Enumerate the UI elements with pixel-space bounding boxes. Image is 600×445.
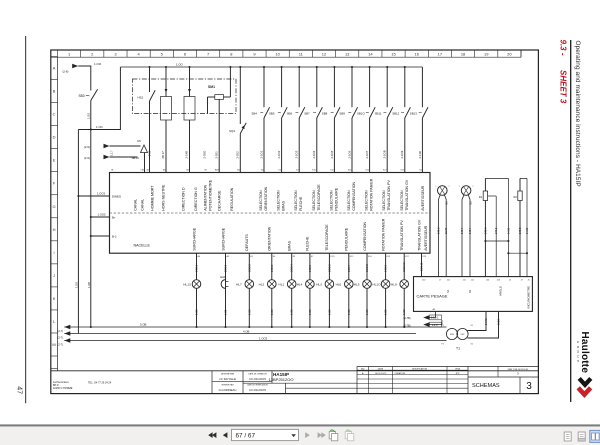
svg-text:(2-9): (2-9): [84, 145, 90, 149]
svg-text:24O.1: 24O.1: [195, 264, 199, 272]
wire 2OO.12 to carte pesage: [421, 253, 424, 276]
svg-text:AVERTISSEUR: AVERTISSEUR: [424, 225, 428, 250]
svg-text:2-1O3: 2-1O3: [295, 150, 299, 158]
control box NACELLE U-commands: [110, 173, 431, 254]
wire label 2-1O4: [312, 150, 316, 158]
box label AVERTISSEUR bottom: [424, 225, 428, 250]
svg-text:SELECTION: SELECTION: [329, 190, 333, 211]
svg-text:2-1O6: 2-1O6: [347, 150, 351, 158]
button first page: [208, 432, 216, 438]
lamp HL3: [316, 253, 334, 328]
svg-text:2OO.2: 2OO.2: [225, 264, 228, 272]
wire 1.OO5 B+: [91, 213, 110, 217]
svg-text:TRANSLATION PV: TRANSLATION PV: [400, 220, 404, 251]
svg-text:SB14: SB14: [132, 156, 139, 160]
svg-text:2-551: 2-551: [214, 151, 218, 159]
svg-text:1.OO: 1.OO: [87, 113, 91, 119]
pin numbers box bottom: [198, 255, 427, 258]
wire B-: [91, 235, 110, 237]
svg-text:2-1O.1: 2-1O.1: [431, 317, 439, 320]
svg-text:FLECHE: FLECHE: [299, 196, 303, 211]
svg-text:18: 18: [461, 51, 466, 56]
svg-text:TELESCOPAGE: TELESCOPAGE: [317, 184, 321, 211]
wire bus 5.OB: [64, 323, 446, 327]
svg-text:24.2B: 24.2B: [526, 227, 529, 234]
svg-text:O.OB: O.OB: [498, 319, 501, 325]
lamp HL13: [183, 253, 201, 328]
contact SM1-1: [161, 66, 172, 173]
svg-text:12: 12: [322, 51, 327, 56]
svg-text:DINEG: DINEG: [112, 194, 122, 198]
wire label 2-1OB: [383, 150, 387, 158]
svg-text:SQ4: SQ4: [229, 129, 235, 133]
svg-text:MODIFICATION: MODIFICATION: [412, 368, 427, 371]
svg-text:ORIENTATION: ORIENTATION: [264, 186, 268, 210]
switch SB12: [392, 66, 410, 173]
svg-text:DATE DE VERIFICATION: DATE DE VERIFICATION: [247, 383, 268, 386]
svg-text:E1: E1: [445, 201, 449, 205]
switch HS1: [138, 66, 156, 173]
box label SELECTION BRAS: [277, 190, 286, 211]
svg-text:1.O6: 1.O6: [384, 309, 388, 315]
svg-text:D: D: [53, 135, 56, 140]
svg-text:PENDULAIRE: PENDULAIRE: [334, 187, 338, 211]
wire R1 bridge: [485, 178, 508, 276]
svg-text:1.O6: 1.O6: [270, 309, 274, 315]
wire label 24B.4: [469, 227, 472, 234]
wire label 24B.B: [519, 227, 522, 234]
box label HOMME MORT: [150, 185, 154, 211]
box label CANAL: [140, 199, 144, 211]
svg-text:J.F FAYOLLE: J.F FAYOLLE: [219, 377, 236, 381]
svg-text:SCHEMAS: SCHEMAS: [472, 383, 500, 389]
svg-text:13BP2512OO: 13BP2512OO: [269, 377, 294, 382]
box label TELESCOPAGE: [325, 224, 329, 251]
svg-text:(2-7B): (2-7B): [404, 317, 411, 320]
wire R1 tap: [488, 196, 497, 277]
svg-text:C: C: [53, 112, 56, 117]
wire 100: [78, 66, 120, 131]
svg-text:COMPENSATION: COMPENSATION: [363, 222, 367, 251]
svg-text:48V: 48V: [450, 334, 454, 336]
svg-text:HORS NEUTRE: HORS NEUTRE: [161, 184, 165, 211]
box label SELECTION ORIENTATION: [259, 186, 268, 210]
svg-text:K1O: K1O: [330, 256, 334, 258]
title block: [51, 371, 539, 394]
svg-text:VERIFIE PAR: VERIFIE PAR: [221, 383, 234, 386]
svg-text:2-14B: 2-14B: [185, 151, 189, 159]
card label ANGLE: [498, 286, 502, 296]
svg-text:DIRECTION D: DIRECTION D: [182, 187, 186, 211]
svg-text:2OO.B: 2OO.B: [365, 264, 369, 272]
svg-text:3: 3: [526, 381, 532, 392]
svg-text:SELECTION: SELECTION: [382, 190, 386, 211]
svg-text:2-55O: 2-55O: [203, 150, 207, 159]
button last page: [318, 432, 326, 438]
svg-text:SB8: SB8: [322, 111, 328, 115]
svg-text:1.OO: 1.OO: [96, 125, 104, 129]
svg-text:HL6: HL6: [336, 283, 342, 287]
svg-text:ROTATION PANIER: ROTATION PANIER: [370, 178, 374, 211]
svg-text:I: I: [54, 250, 55, 255]
svg-text:CANAL: CANAL: [140, 199, 144, 211]
wire label 2-1O9: [400, 150, 404, 158]
box label TRANSLATION GV: [417, 219, 421, 251]
svg-text:10: 10: [275, 51, 280, 56]
wire label 2-552: [235, 151, 239, 159]
switch SB6: [287, 66, 305, 173]
svg-text:SB5: SB5: [269, 111, 275, 115]
wire label 23.7B: [445, 227, 448, 234]
svg-text:PENDULAIRE: PENDULAIRE: [345, 227, 349, 251]
svg-text:1.O6: 1.O6: [347, 309, 351, 315]
resistor R1: [479, 178, 488, 276]
svg-text:24O.5: 24O.5: [308, 264, 312, 272]
machine cell HA15IP: [269, 372, 294, 382]
pin B+: [112, 216, 116, 220]
svg-text:VISA: VISA: [455, 368, 460, 371]
svg-text:(2-7): (2-7): [58, 342, 64, 346]
sidebar manual title: [574, 41, 581, 187]
svg-text:2OO.4: 2OO.4: [290, 264, 294, 272]
svg-text:1.O6: 1.O6: [290, 309, 294, 315]
svg-text:HA1: HA1: [220, 275, 226, 279]
svg-text:SB4: SB4: [251, 111, 257, 115]
box label HORS NEUTRE: [161, 184, 165, 211]
svg-text:HL1: HL1: [279, 283, 285, 287]
svg-text:4.OB: 4.OB: [243, 329, 250, 333]
svg-text:G.GODINEAU: G.GODINEAU: [219, 388, 237, 392]
svg-text:SELECTION: SELECTION: [312, 190, 316, 211]
card label S2: [469, 289, 472, 293]
svg-text:BRAS: BRAS: [288, 240, 292, 250]
svg-text:24O.7: 24O.7: [347, 264, 351, 272]
page spine line: [25, 36, 27, 403]
svg-text:G: G: [53, 204, 56, 209]
svg-text:1.O6: 1.O6: [308, 309, 312, 315]
svg-text:POTENTIOMETRE: POTENTIOMETRE: [208, 179, 212, 211]
box label BRAS: [288, 240, 292, 250]
svg-text:24.7.2: 24.7.2: [485, 318, 488, 325]
svg-text:HL2: HL2: [259, 283, 265, 287]
svg-text:1: 1: [435, 186, 436, 188]
wire link 241: [484, 240, 509, 242]
button next page: [305, 432, 310, 438]
svg-text:20: 20: [507, 51, 512, 56]
toolbar separator: [0, 424, 600, 427]
svg-text:1O-O9-2OO5: 1O-O9-2OO5: [249, 377, 266, 381]
logo Haulotte: [576, 332, 591, 395]
page number 47: [15, 386, 22, 394]
svg-text:24B.5: 24B.5: [495, 227, 498, 234]
svg-text:Operating and maintenance inst: Operating and maintenance instructions -…: [574, 41, 581, 187]
box label SELECTION TRANSLATION PV: [382, 180, 391, 211]
svg-text:2-1O9: 2-1O9: [400, 150, 404, 158]
schemas cell: [472, 377, 532, 394]
svg-text:TRANSLATION GV: TRANSLATION GV: [405, 179, 409, 211]
svg-text:2-1O4: 2-1O4: [312, 150, 316, 158]
node arrow (2-9) a: [84, 144, 141, 156]
schematic border frame: [51, 50, 539, 394]
button single page view: [564, 432, 571, 441]
resistor R2: [513, 178, 522, 276]
svg-text:SELECTION: SELECTION: [277, 190, 281, 211]
svg-text:HL9: HL9: [391, 283, 397, 287]
svg-text:TEL: O4 77 29 24 24: TEL: O4 77 29 24 24: [88, 381, 112, 384]
svg-text:SELECTION: SELECTION: [259, 190, 263, 211]
wire label 2-1O5: [330, 150, 334, 158]
svg-text:9.3 -: 9.3 -: [559, 40, 568, 56]
date cell: [247, 372, 268, 392]
svg-text:1.OO: 1.OO: [94, 62, 102, 66]
switch SB7: [304, 66, 322, 173]
svg-text:2OO.12: 2OO.12: [421, 262, 424, 271]
sheet count cell: [468, 367, 538, 378]
box label ALIMENTATION: [203, 184, 207, 210]
svg-text:ANGLE: ANGLE: [498, 286, 502, 296]
svg-text:BRAS: BRAS: [282, 200, 286, 210]
svg-text:1.O6: 1.O6: [365, 309, 369, 315]
svg-text:R2: R2: [513, 195, 517, 199]
wire label 24B.A: [484, 227, 487, 234]
sensor E1: [435, 186, 449, 277]
svg-text:1.OO3: 1.OO3: [259, 336, 268, 340]
wire T1 secondary 24.7.2: [468, 311, 489, 330]
switch SB1O: [357, 66, 375, 173]
svg-text:4215O L'HORME: 4215O L'HORME: [53, 387, 73, 390]
switch SB5: [269, 66, 287, 173]
svg-text:CANAL: CANAL: [133, 199, 137, 211]
svg-text:16: 16: [414, 51, 419, 56]
node wire 100 entry arrow (2-8): [63, 62, 102, 74]
svg-text:J: J: [53, 273, 55, 278]
svg-text:B: B: [53, 89, 56, 94]
svg-text:2B.17: 2B.17: [161, 151, 165, 159]
svg-text:2: 2: [449, 186, 450, 188]
node arrow (2-9) b: [84, 155, 138, 160]
svg-text:ALIMENTATION: ALIMENTATION: [203, 184, 207, 210]
svg-text:DECHARGE: DECHARGE: [217, 190, 221, 211]
button previous view: [329, 430, 338, 441]
svg-text:HS1: HS1: [138, 96, 144, 100]
svg-text:SELECTION: SELECTION: [400, 190, 404, 211]
svg-text:2OO.3: 2OO.3: [247, 264, 251, 272]
page number field: [232, 429, 299, 440]
svg-text:1.O6: 1.O6: [247, 309, 251, 315]
switch SB11: [375, 66, 393, 173]
svg-text:HL13: HL13: [183, 283, 191, 287]
node arrow (2-7B) b: [404, 320, 442, 327]
wire label 2-1O6: [347, 150, 351, 158]
svg-text:NACELLE: NACELLE: [134, 244, 151, 248]
svg-text:14: 14: [368, 51, 373, 56]
svg-text:15: 15: [391, 51, 396, 56]
button facing view selected: [590, 430, 600, 442]
box label CANAL: [133, 199, 137, 211]
svg-text:2OO.5: 2OO.5: [327, 264, 331, 272]
wire rail 1.OO left: [75, 130, 80, 334]
lamp HL9: [391, 253, 409, 328]
box label PENDULAIRE: [345, 227, 349, 251]
svg-text:SB1O: SB1O: [357, 111, 365, 115]
svg-text:1.O6: 1.O6: [402, 309, 406, 315]
wire label 2-11O: [418, 150, 422, 158]
buzzer U5 / switch SB14: [132, 139, 152, 173]
wire label 2-55O: [203, 150, 207, 159]
svg-text:1.OO3: 1.OO3: [97, 192, 105, 196]
lamp HL5: [354, 253, 372, 328]
node arrow (2-7B) a: [404, 311, 442, 320]
wire label 24.2B: [507, 227, 510, 234]
svg-text:1O-O9-2OO5: 1O-O9-2OO5: [249, 388, 266, 392]
wire T1 secondary O.OB: [468, 311, 501, 338]
svg-text:B+: B+: [112, 216, 116, 220]
svg-text:1: 1: [459, 186, 460, 188]
svg-text:1-2.O: 1-2.O: [432, 324, 438, 327]
svg-text:2-1O7: 2-1O7: [365, 150, 369, 158]
svg-text:(2-7): (2-7): [58, 329, 64, 333]
svg-text:INCLINOMETRE: INCLINOMETRE: [527, 286, 531, 309]
svg-text:ORIENTATION: ORIENTATION: [268, 226, 272, 250]
svg-text:(2-9): (2-9): [84, 156, 90, 160]
svg-text:2-11O: 2-11O: [418, 150, 422, 158]
wire 1.OO3 to nacelle box: [78, 192, 109, 196]
svg-text:SB12: SB12: [392, 111, 399, 115]
wire label 2-14B: [185, 151, 189, 159]
box label SELECTION ROTATION PANIER: [365, 178, 374, 211]
svg-text:DEFAUTS: DEFAUTS: [245, 234, 249, 251]
svg-text:TRANSLATION GV: TRANSLATION GV: [417, 219, 421, 251]
pin numbers box top: [111, 168, 423, 171]
svg-text:K1O: K1O: [312, 169, 316, 171]
button next view: [345, 430, 354, 441]
lamp HL7: [236, 253, 254, 328]
wire label 24B.D: [438, 227, 441, 234]
svg-text:2-1O2: 2-1O2: [277, 150, 281, 158]
svg-text:2OO.1O: 2OO.1O: [402, 262, 406, 272]
pin DINEG: [112, 194, 122, 198]
svg-text:24O.2: 24O.2: [270, 264, 274, 272]
svg-text:24B.B: 24B.B: [519, 227, 522, 234]
svg-text:HL1O: HL1O: [372, 283, 381, 287]
sidebar rule: [570, 40, 572, 402]
svg-text:24.2B: 24.2B: [507, 227, 510, 234]
box label DECHARGE: [217, 190, 221, 211]
box label ROTATION PANIER: [381, 218, 385, 251]
horn HA1: [220, 253, 229, 328]
svg-text:24B.F: 24B.F: [461, 227, 464, 234]
box label TRANSLATION PV: [400, 220, 404, 251]
svg-text:1.O6: 1.O6: [195, 309, 199, 315]
svg-text:SB3: SB3: [79, 94, 85, 98]
svg-text:5.OB: 5.OB: [140, 323, 147, 327]
svg-text:CREATION: CREATION: [395, 372, 406, 375]
svg-text:M: M: [52, 342, 55, 347]
svg-text:HL7: HL7: [236, 283, 242, 287]
svg-text:SELECTION: SELECTION: [365, 190, 369, 211]
box label FLECHE: [306, 236, 310, 251]
address cell: [53, 381, 112, 390]
wire label 24B.F: [461, 227, 464, 234]
wire label 2B.17: [161, 151, 165, 159]
switch SB4: [251, 66, 269, 173]
svg-text:E: E: [53, 158, 56, 163]
svg-text:HL5: HL5: [354, 283, 360, 287]
label NACELLE: [134, 244, 151, 248]
wire link 253: [507, 252, 528, 254]
svg-text:67 / 67: 67 / 67: [236, 432, 256, 439]
svg-text:19: 19: [484, 51, 489, 56]
toolbar background: [0, 427, 600, 445]
box label DIRECTION D: [182, 187, 186, 211]
node arrow (2-7) bus 1.OOO: [58, 338, 71, 346]
svg-text:A: A: [53, 66, 56, 71]
svg-text:SB6: SB6: [287, 111, 293, 115]
box label SELECTION TRANSLATION GV: [400, 179, 409, 211]
card label INCLINOMETRE: [527, 286, 531, 309]
svg-text:H: H: [53, 227, 56, 232]
svg-text:T1: T1: [456, 346, 460, 350]
box label REGULATION: [230, 187, 234, 211]
wire R2 bridge: [520, 178, 527, 276]
wire bus 1.OB: [64, 329, 416, 333]
svg-text:24B.A: 24B.A: [484, 227, 487, 234]
wire label 2-1O3: [295, 150, 299, 158]
box label DEFAUTS: [245, 234, 249, 251]
wire rail 1.OB left: [87, 130, 92, 329]
dessine par cell: [219, 372, 237, 392]
button previous page: [223, 432, 228, 438]
svg-text:1.O6: 1.O6: [225, 309, 228, 315]
svg-text:FLECHE: FLECHE: [306, 236, 310, 251]
svg-text:SELECTION: SELECTION: [347, 190, 351, 211]
lamp HL1: [279, 253, 297, 328]
svg-text:HL3: HL3: [316, 283, 322, 287]
button continuous view: [578, 432, 585, 441]
svg-text:2-552: 2-552: [235, 151, 239, 159]
svg-text:ROTATION PANIER: ROTATION PANIER: [381, 218, 385, 251]
switch SB3: [79, 89, 98, 100]
svg-text:K: K: [53, 296, 56, 301]
svg-text:SURCHARGE: SURCHARGE: [192, 227, 196, 251]
svg-text:13: 13: [345, 51, 350, 56]
svg-text:GROUP: GROUP: [576, 341, 580, 365]
sensor E2: [459, 186, 473, 277]
selector SM1 mechanical box: [132, 79, 236, 114]
svg-text:1.OO5: 1.OO5: [98, 213, 106, 217]
box label SURCHARGE: [192, 227, 196, 251]
svg-text:1.O6: 1.O6: [327, 309, 331, 315]
card CARTE PESAGE: [414, 277, 533, 312]
svg-text:(2-7B): (2-7B): [404, 324, 411, 327]
box label SELECTION PENDULAIRE: [329, 187, 338, 211]
wire label 24B.5: [495, 227, 498, 234]
svg-text:SURCHARGE: SURCHARGE: [221, 227, 225, 251]
switch SB8: [322, 66, 340, 173]
switch SB13: [410, 67, 428, 173]
lamp HL6: [336, 253, 354, 328]
svg-text:1.OO: 1.OO: [75, 282, 79, 288]
svg-text:17: 17: [438, 51, 443, 56]
box label COMPENSATION: [363, 222, 367, 251]
wire label 2-1O7: [365, 150, 369, 158]
svg-text:24V: 24V: [461, 334, 465, 336]
switch SQ4: [229, 66, 246, 173]
svg-text:SB9: SB9: [339, 111, 345, 115]
lamp HL2: [259, 253, 277, 328]
svg-text:2-1O1: 2-1O1: [259, 150, 263, 158]
svg-text:2-1O5: 2-1O5: [330, 150, 334, 158]
